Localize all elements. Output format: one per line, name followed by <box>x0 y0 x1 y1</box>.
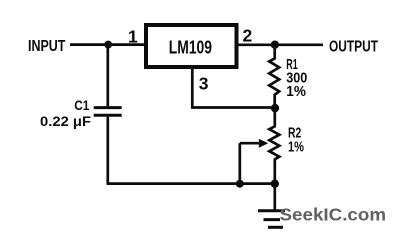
svg-text:1: 1 <box>128 26 138 46</box>
svg-text:0.22 μF: 0.22 μF <box>40 113 91 129</box>
svg-text:2: 2 <box>243 26 253 46</box>
svg-text:1%: 1% <box>288 139 304 156</box>
wire U1 pin 3 to R1/R2 node <box>192 67 273 108</box>
svg-text:3: 3 <box>199 73 209 93</box>
svg-text:1%: 1% <box>286 83 306 100</box>
svg-text:INPUT: INPUT <box>28 38 66 55</box>
resistor R1 <box>269 45 279 108</box>
R2 wiper arrow <box>240 142 261 145</box>
svg-text:LM109: LM109 <box>169 38 212 58</box>
wire to ground <box>273 184 276 211</box>
node R2-bottom/ground junction <box>271 180 279 188</box>
regulator U1 box <box>146 25 237 67</box>
svg-text:SeekIC.com: SeekIC.com <box>280 205 387 225</box>
capacitor C1 bottom lead <box>106 117 109 184</box>
node output junction <box>271 41 279 49</box>
svg-text:C1: C1 <box>74 97 89 113</box>
wire bottom rail <box>107 182 275 185</box>
capacitor C1 plates <box>94 106 122 109</box>
svg-text:OUTPUT: OUTPUT <box>329 38 378 55</box>
wire U1 pin 2 to output <box>238 43 323 46</box>
node R1/R2/pin3 junction <box>271 104 279 112</box>
ground <box>258 211 285 228</box>
potentiometer R2 <box>269 108 279 184</box>
capacitor C1 top lead <box>106 45 109 107</box>
node input junction <box>104 41 112 49</box>
wire R2 wiper to bottom rail <box>238 143 241 183</box>
wire input to U1 pin 1 <box>70 43 146 46</box>
node wiper/bottom-rail junction <box>236 180 244 188</box>
